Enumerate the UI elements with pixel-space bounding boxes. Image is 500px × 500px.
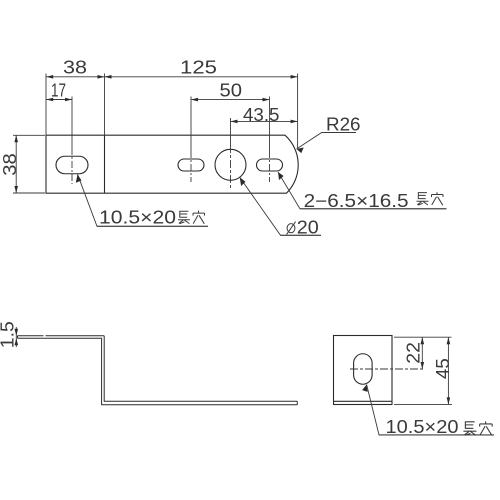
svg-text:R26: R26 xyxy=(326,115,361,135)
svg-text:43.5: 43.5 xyxy=(243,105,280,125)
svg-text:17: 17 xyxy=(51,81,66,101)
svg-text:20: 20 xyxy=(297,218,319,238)
svg-text:125: 125 xyxy=(180,58,217,78)
svg-text:38: 38 xyxy=(63,58,87,78)
svg-text:10.5×20: 10.5×20 xyxy=(99,208,176,228)
svg-text:10.5×20: 10.5×20 xyxy=(386,417,459,437)
svg-text:22: 22 xyxy=(404,342,424,364)
svg-text:38: 38 xyxy=(0,153,20,176)
svg-text:2−6.5×16.5: 2−6.5×16.5 xyxy=(304,191,409,211)
svg-text:50: 50 xyxy=(220,81,243,101)
svg-text:45: 45 xyxy=(433,358,453,379)
svg-text:1.5: 1.5 xyxy=(0,321,18,348)
